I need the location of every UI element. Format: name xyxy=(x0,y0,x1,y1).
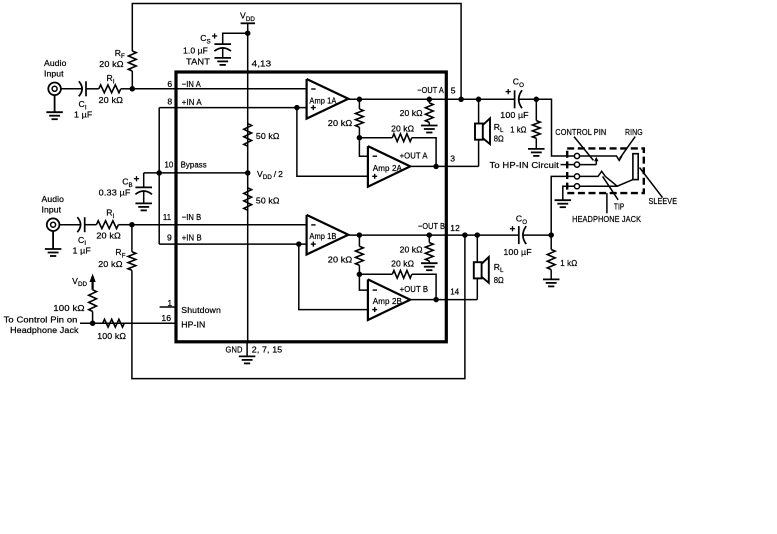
node V_DD/2 xyxy=(245,170,251,176)
jack contact terminal 1 (ring) xyxy=(574,153,579,158)
wire pin5 to speaker R_L A xyxy=(478,99,480,123)
label HEADPHONE JACK with leader xyxy=(606,193,608,213)
svg-text:8: 8 xyxy=(167,97,172,107)
svg-text:4,13: 4,13 xyxy=(252,58,272,68)
svg-text:20 kΩ: 20 kΩ xyxy=(400,108,424,118)
svg-text:RING: RING xyxy=(625,127,643,137)
wire To HP-IN Circuit to control contact xyxy=(561,164,575,166)
capacitor C_I 1 uF (channel A) xyxy=(85,81,87,96)
svg-text:Amp 1B: Amp 1B xyxy=(309,231,336,241)
wire speaker A bottom to pin 3 xyxy=(478,140,480,167)
wire C_I to R_I (channel A) xyxy=(86,88,99,90)
svg-text:Headphone Jack: Headphone Jack xyxy=(10,325,79,335)
wire R_I to -IN A node xyxy=(121,88,133,90)
wire C_O B to 1k node xyxy=(523,234,551,236)
wire Amp 2B output to pin 14 / +OUT B xyxy=(410,299,477,301)
wire jack J1 to C_I xyxy=(61,88,82,90)
V_DD arrow for pull-up xyxy=(91,280,93,290)
wire R_I to -IN B node xyxy=(118,224,131,226)
ground below 1k (channel B) xyxy=(543,278,560,280)
resistor 50 kOhm lower bias divider xyxy=(244,188,252,211)
capacitor C_I 1 uF (channel B) xyxy=(84,217,86,232)
wire 1k node B up to headphone jack tip contact xyxy=(551,176,574,235)
wire Amp 1A output to pin 5 / -OUT A xyxy=(348,98,514,100)
svg-text:To Control Pin on: To Control Pin on xyxy=(4,315,78,325)
speaker R_L 8 Ohm (channel B) xyxy=(482,257,489,283)
svg-text:−OUT A: −OUT A xyxy=(417,85,444,95)
svg-text:10: 10 xyxy=(165,160,174,170)
capacitor C_O 100 uF (channel B) xyxy=(518,226,520,244)
svg-text:Bypass: Bypass xyxy=(181,160,207,170)
ground below jack sleeve contact xyxy=(555,199,572,201)
node -IN B / R_F junction (channel B) xyxy=(129,222,135,228)
svg-text:0.33 µF: 0.33 µF xyxy=(99,188,131,198)
node 1k branch A xyxy=(534,97,540,103)
control pin arm and arrow xyxy=(580,164,597,166)
op-amp Amp 1B xyxy=(307,215,349,255)
wire pin12 to speaker R_L B xyxy=(476,235,478,262)
svg-text:Shutdown: Shutdown xyxy=(181,305,221,315)
svg-text:5: 5 xyxy=(451,86,456,96)
wire C_B to bypass node xyxy=(143,173,145,188)
svg-text:100 kΩ: 100 kΩ xyxy=(53,303,85,313)
node speaker branch B xyxy=(475,232,481,238)
svg-text:Audio: Audio xyxy=(44,58,67,68)
svg-text:8Ω: 8Ω xyxy=(494,134,505,144)
node 100k divider junction xyxy=(90,320,96,326)
resistor 50 kOhm upper bias divider xyxy=(244,124,252,147)
wire -IN A node into pin 6 xyxy=(132,88,306,90)
resistor 1 kOhm (channel B) xyxy=(550,235,552,249)
jack contact terminal 4 (sleeve/ground) xyxy=(574,184,579,189)
svg-text:9: 9 xyxy=(167,232,172,242)
resistor 100 kOhm pull-up to V_DD xyxy=(89,290,97,312)
svg-text:HP-IN: HP-IN xyxy=(181,320,205,330)
wire feedback loop channel A (R_F to -OUT A) xyxy=(132,4,461,100)
resistor R_F 20 kOhm (channel B) xyxy=(128,252,136,270)
op-amp Amp 2B xyxy=(368,279,410,320)
wire V_DD node to C_S xyxy=(223,33,248,44)
ground below 20k (channel B) xyxy=(421,262,438,264)
svg-text:50 kΩ: 50 kΩ xyxy=(256,131,280,141)
op-amp Amp 2A xyxy=(368,146,410,187)
resistor 100 kOhm series (HP-IN) xyxy=(103,319,125,327)
pin GND 2,7,15 stub and ground xyxy=(246,342,248,357)
svg-text:14: 14 xyxy=(450,287,459,297)
svg-text:To HP-IN Circuit: To HP-IN Circuit xyxy=(490,160,560,170)
node pin 14 feedback junction xyxy=(433,297,439,303)
node Amp 1B output / 20k feedback xyxy=(357,232,363,238)
svg-text:TIP: TIP xyxy=(614,202,625,212)
wire 1k node A to headphone jack ring contact xyxy=(536,99,574,156)
svg-text:1.0 µF: 1.0 µF xyxy=(183,46,208,56)
svg-text:Audio: Audio xyxy=(42,194,65,204)
svg-text:Amp 2A: Amp 2A xyxy=(373,163,402,173)
svg-text:GND: GND xyxy=(226,344,243,354)
node +IN B to Amp 2B branch xyxy=(296,241,302,247)
node 20k junction B xyxy=(357,272,363,278)
wire feedback loop channel B (R_F to -OUT B) xyxy=(132,235,465,379)
resistor 20 kOhm Amp2B input (channel B) xyxy=(358,235,360,246)
wire HP-IN pin 16 xyxy=(80,322,176,324)
ground below jack J1 xyxy=(54,95,56,112)
ring lever with contact notch xyxy=(580,156,622,160)
wire 20k node to Amp 2A - input xyxy=(359,138,368,157)
svg-text:+OUT B: +OUT B xyxy=(400,284,429,294)
jack contact terminal 2 (control) xyxy=(574,162,579,167)
wire jack J2 to C_I xyxy=(59,224,80,226)
ground below 1k (channel A) xyxy=(528,148,545,150)
svg-text:+IN B: +IN B xyxy=(182,232,202,242)
node 20k junction A xyxy=(357,135,363,141)
ground below 20k (channel A) xyxy=(421,125,438,127)
resistor 20 kOhm Amp2A input (channel A) xyxy=(358,99,360,109)
svg-text:1: 1 xyxy=(167,298,172,308)
node Amp 1A output / 20k feedback xyxy=(357,97,363,103)
node pin 3 feedback junction xyxy=(433,164,439,170)
node bypass junction xyxy=(156,170,162,176)
node +IN A to Amp 2A branch xyxy=(294,105,300,111)
supply rail V_DD symbol xyxy=(241,22,255,24)
ground below C_S xyxy=(214,57,231,59)
svg-text:+IN A: +IN A xyxy=(182,97,202,107)
svg-text:100 µF: 100 µF xyxy=(503,247,531,257)
wire bias column pin 4,13 to GND 2,7,15 xyxy=(247,72,249,342)
wire C_I to R_I (channel B) xyxy=(85,224,97,226)
resistor 20 kOhm grounded (channel A) xyxy=(427,97,433,103)
headphone jack dashed outline xyxy=(567,148,644,193)
resistor 1 kOhm (channel A) xyxy=(535,99,537,120)
node -IN A / R_F junction (channel A) xyxy=(130,86,136,92)
node 1k branch B / jack tip feed xyxy=(548,232,554,238)
svg-text:SLEEVE: SLEEVE xyxy=(649,196,678,206)
wire Amp 1B output to pin 12 / -OUT B xyxy=(348,234,519,236)
node V_DD/C_S junction xyxy=(245,30,251,36)
wire bypass pin 10 to V_DD/2 node xyxy=(144,172,248,174)
node speaker branch A xyxy=(476,97,482,103)
wire +IN B branch down to Amp 2B + xyxy=(299,244,368,310)
svg-text:6: 6 xyxy=(167,79,172,89)
svg-text:12: 12 xyxy=(450,223,460,233)
pin 1 Shutdown stub xyxy=(160,306,176,308)
capacitor C_B 0.33 uF xyxy=(135,186,152,188)
jack contact terminal 3 (tip) xyxy=(574,174,579,179)
capacitor C_O 100 uF (channel A) xyxy=(514,90,516,108)
sleeve lever to plug xyxy=(580,180,633,187)
wire bypass column vertical xyxy=(158,108,160,245)
svg-text:1 kΩ: 1 kΩ xyxy=(510,124,527,134)
wire -IN A node to R_F (channel A) xyxy=(131,71,133,89)
node feedback riser on pin 5 wire xyxy=(458,97,464,103)
svg-text:1 kΩ: 1 kΩ xyxy=(560,258,577,268)
svg-text:20 kΩ: 20 kΩ xyxy=(96,231,121,241)
resistor R_I 20 kOhm (channel A) xyxy=(99,85,121,93)
speaker R_L 8 Ohm (channel A) xyxy=(483,118,490,144)
wire 20k node to Amp 2B - input xyxy=(359,274,368,290)
svg-text:8Ω: 8Ω xyxy=(494,275,505,285)
svg-text:2, 7, 15: 2, 7, 15 xyxy=(252,344,283,354)
svg-text:100 kΩ: 100 kΩ xyxy=(97,331,126,341)
IC package outline U1 xyxy=(176,72,446,342)
svg-text:1 µF: 1 µF xyxy=(74,110,92,120)
wire speaker B bottom to pin 14 xyxy=(476,278,478,299)
svg-text:100 µF: 100 µF xyxy=(500,110,528,120)
wire +IN A from bypass column xyxy=(159,107,306,109)
svg-text:CONTROL PIN: CONTROL PIN xyxy=(555,127,606,137)
resistor 20 kOhm Amp 2B feedback (channel B) xyxy=(359,273,392,275)
svg-text:20 kΩ: 20 kΩ xyxy=(391,259,415,269)
tip lever with contact bump xyxy=(580,171,618,186)
svg-text:50 kΩ: 50 kΩ xyxy=(256,195,280,205)
svg-text:−IN A: −IN A xyxy=(182,79,201,89)
svg-text:16: 16 xyxy=(161,313,171,323)
svg-text:20 kΩ: 20 kΩ xyxy=(328,255,353,265)
node feedback riser on pin 12 wire xyxy=(462,232,468,238)
resistor 20 kOhm grounded (channel B) xyxy=(427,232,433,238)
svg-text:20 kΩ: 20 kΩ xyxy=(400,244,424,254)
wire V_DD to pin 4,13 and bias divider xyxy=(247,33,249,72)
audio input jack J2 (channel B) xyxy=(47,218,60,231)
svg-text:HEADPHONE JACK: HEADPHONE JACK xyxy=(572,214,641,224)
svg-text:+OUT A: +OUT A xyxy=(400,151,428,161)
wire -IN B node to R_F (channel B) xyxy=(131,225,133,252)
svg-text:20 kΩ: 20 kΩ xyxy=(391,124,415,134)
wire Amp 2A output to pin 3 / +OUT A xyxy=(410,165,478,167)
wire -IN B node into pin 11 xyxy=(132,224,307,226)
resistor 20 kOhm Amp 2A feedback (channel A) xyxy=(359,137,392,139)
svg-text:20 kΩ: 20 kΩ xyxy=(99,95,124,105)
svg-text:1 µF: 1 µF xyxy=(73,246,91,256)
ground below C_B xyxy=(135,202,152,204)
svg-text:20 kΩ: 20 kΩ xyxy=(328,118,353,128)
wire +IN A branch down to Amp 2A + xyxy=(297,108,368,177)
svg-text:11: 11 xyxy=(163,212,171,222)
svg-text:20 kΩ: 20 kΩ xyxy=(99,59,124,69)
svg-text:20 kΩ: 20 kΩ xyxy=(98,259,123,269)
svg-text:TANT: TANT xyxy=(186,57,211,67)
svg-text:3: 3 xyxy=(450,153,455,163)
svg-text:Amp 2B: Amp 2B xyxy=(373,296,402,306)
resistor R_F 20 kOhm (channel A) xyxy=(128,51,136,71)
svg-text:−OUT B: −OUT B xyxy=(418,221,445,231)
capacitor C_S 1.0 uF TANT xyxy=(214,43,231,45)
ground below jack J2 xyxy=(52,231,54,249)
svg-text:Amp 1A: Amp 1A xyxy=(309,95,336,105)
wire sleeve contact to ground xyxy=(563,186,575,200)
audio input jack J1 (channel A) xyxy=(48,83,61,96)
svg-text:Input: Input xyxy=(42,205,62,215)
op-amp Amp 1A xyxy=(307,79,349,119)
svg-text:−IN B: −IN B xyxy=(182,212,202,222)
wire +IN B from bypass column xyxy=(159,243,306,245)
headphone plug sleeve bar xyxy=(633,154,638,180)
resistor R_I 20 kOhm (channel B) xyxy=(96,221,118,229)
wire C_O A to 1k node xyxy=(519,98,537,100)
svg-text:Input: Input xyxy=(44,69,64,79)
